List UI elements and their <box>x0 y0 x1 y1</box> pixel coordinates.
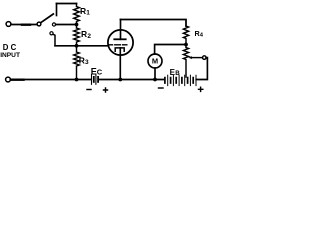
svg-text:1: 1 <box>86 9 90 16</box>
node meter bottom junction <box>153 78 157 82</box>
battery EB <box>165 75 196 85</box>
pot wiper arrow <box>188 56 202 59</box>
resistor R4 <box>183 26 188 45</box>
svg-text:B: B <box>175 70 180 77</box>
minus sign EB <box>159 87 164 89</box>
switch contact 1 <box>56 4 58 16</box>
svg-text:INPUT: INPUT <box>0 52 20 59</box>
label R4 <box>195 29 204 39</box>
tube V1 envelope <box>108 30 133 55</box>
wire bottom rail left <box>10 79 91 81</box>
label EB <box>170 68 181 77</box>
wire top rail left <box>57 3 77 5</box>
wire meter bottom lead <box>154 68 156 80</box>
switch contact 2 <box>52 23 55 26</box>
battery EC <box>92 75 99 85</box>
meter M <box>148 54 162 68</box>
tube cathode lead <box>119 48 121 80</box>
plus sign EB <box>199 87 203 91</box>
potentiometer R5 <box>183 45 188 78</box>
label D C INPUT <box>0 43 20 59</box>
wire input top <box>11 24 37 26</box>
label R3 <box>79 56 89 67</box>
wire bottom rail mid <box>120 79 164 81</box>
wire EC to cathode <box>99 79 120 81</box>
wire top rail right <box>121 20 187 27</box>
wire grid line <box>55 45 108 47</box>
label R2 <box>81 29 91 40</box>
svg-text:C: C <box>97 67 103 76</box>
wire meter to node <box>155 45 186 55</box>
svg-text:D C: D C <box>3 43 17 52</box>
node cathode junction <box>118 78 122 82</box>
tube plate <box>114 38 125 40</box>
svg-text:R: R <box>81 29 87 39</box>
wire contact3 down <box>53 34 55 46</box>
switch S1 arm <box>41 14 54 23</box>
terminal (D C input -) <box>6 77 11 82</box>
wire wiper to bottom rail <box>196 58 207 80</box>
wire contact2 to R1/R2 node <box>56 24 77 26</box>
svg-text:2: 2 <box>87 33 91 40</box>
resistor R2 <box>74 25 80 46</box>
label EC <box>91 66 103 76</box>
tube plate lead <box>120 20 122 40</box>
svg-text:3: 3 <box>85 59 89 66</box>
svg-text:M: M <box>152 57 158 66</box>
minus sign EC <box>87 89 91 91</box>
terminal pot wiper <box>203 56 207 60</box>
resistor R1 <box>74 4 80 25</box>
terminal (D C input +) <box>6 22 11 27</box>
node R3 bottom junction <box>75 78 79 82</box>
node R1/R2 junction <box>75 23 79 27</box>
node R4/pot/meter junction <box>184 43 188 47</box>
label R1 <box>80 6 90 17</box>
switch S1 pole <box>37 22 41 26</box>
resistor R3 <box>74 46 80 80</box>
plus sign EC <box>104 88 108 92</box>
switch contact 3 <box>50 32 53 35</box>
tube cathode <box>115 48 124 51</box>
node R2/R3 junction <box>75 44 79 48</box>
tube grid (dashed) <box>109 44 127 46</box>
